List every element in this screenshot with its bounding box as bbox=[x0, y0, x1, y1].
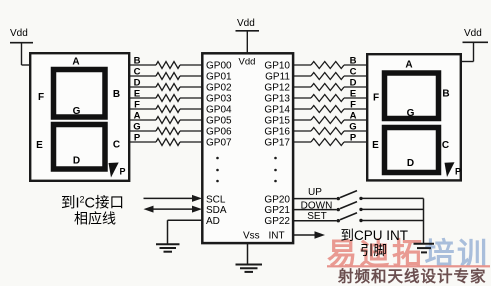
svg-text:A: A bbox=[134, 111, 141, 122]
node B left / wire bbox=[130, 64, 156, 66]
svg-text:G: G bbox=[73, 106, 81, 117]
resistor R16 bbox=[294, 139, 367, 146]
svg-text:P: P bbox=[350, 133, 357, 144]
segments E D C right bbox=[385, 128, 439, 173]
svg-text:B: B bbox=[113, 89, 120, 100]
svg-text:GP13: GP13 bbox=[264, 94, 290, 105]
svg-text:P: P bbox=[134, 133, 141, 144]
svg-text:D: D bbox=[350, 78, 357, 89]
wire Vss to ground bbox=[247, 244, 249, 265]
svg-text:A: A bbox=[350, 111, 357, 122]
svg-text:相应线: 相应线 bbox=[74, 211, 116, 227]
svg-text:Vdd: Vdd bbox=[237, 18, 255, 29]
power symbol Vdd (top center) bbox=[236, 18, 260, 53]
svg-text:GP01: GP01 bbox=[206, 72, 232, 83]
node A left / wire bbox=[130, 119, 156, 121]
svg-text:GP14: GP14 bbox=[264, 105, 290, 116]
wire Vdd to left display bbox=[22, 64, 31, 66]
power symbol Vdd (left) bbox=[10, 28, 33, 65]
svg-text:GP07: GP07 bbox=[206, 138, 232, 149]
svg-text:GP12: GP12 bbox=[264, 83, 290, 94]
display DS2 (right 7-segment) bbox=[367, 54, 461, 180]
svg-text:C: C bbox=[113, 140, 120, 151]
svg-text:B: B bbox=[442, 89, 449, 100]
svg-text:B: B bbox=[350, 56, 357, 67]
svg-text:Vss: Vss bbox=[243, 231, 260, 242]
decimal point P bbox=[109, 163, 119, 178]
ground (switch bus) bbox=[414, 244, 435, 253]
svg-text:GP15: GP15 bbox=[264, 116, 290, 127]
resistor R2 bbox=[156, 73, 202, 80]
label to CPU INT pin bbox=[341, 228, 409, 258]
svg-text:GP10: GP10 bbox=[264, 61, 290, 72]
svg-text:GP17: GP17 bbox=[264, 138, 290, 149]
svg-text:GP16: GP16 bbox=[264, 127, 290, 138]
resistor R10 bbox=[294, 73, 367, 80]
segments A F B G right bbox=[385, 73, 439, 119]
op-amp U1 IC body bbox=[202, 53, 293, 243]
node E left / wire bbox=[130, 97, 156, 99]
svg-text:C: C bbox=[134, 67, 141, 78]
resistor R8 bbox=[156, 139, 202, 146]
svg-text:SCL: SCL bbox=[206, 195, 226, 206]
ground (AD) bbox=[156, 244, 180, 251]
svg-text:A: A bbox=[405, 60, 412, 71]
svg-text:D: D bbox=[134, 78, 141, 89]
segments A F B G bbox=[54, 70, 106, 118]
svg-text:到CPU INT: 到CPU INT bbox=[341, 228, 409, 243]
switch S1 UP bbox=[294, 191, 424, 201]
resistor R13 bbox=[294, 106, 367, 113]
wire AD to ground bbox=[168, 220, 203, 244]
power symbol Vdd (right) bbox=[463, 28, 489, 62]
resistor R5 bbox=[156, 106, 202, 113]
ellipsis right bbox=[274, 157, 277, 183]
svg-text:F: F bbox=[350, 100, 356, 111]
svg-text:GP03: GP03 bbox=[206, 94, 232, 105]
svg-text:到I2C接口: 到I2C接口 bbox=[61, 195, 124, 212]
svg-text:Vdd: Vdd bbox=[239, 57, 256, 68]
svg-text:B: B bbox=[134, 56, 141, 67]
wire INT arrow bbox=[294, 231, 326, 238]
svg-text:GP11: GP11 bbox=[265, 72, 290, 83]
node F left / wire bbox=[130, 108, 156, 110]
node P left / wire bbox=[130, 141, 156, 143]
svg-text:D: D bbox=[407, 158, 414, 169]
svg-text:D: D bbox=[73, 156, 80, 167]
svg-text:GP04: GP04 bbox=[206, 105, 232, 116]
svg-text:P: P bbox=[455, 167, 461, 177]
svg-text:E: E bbox=[36, 140, 43, 151]
segments E D C bbox=[54, 125, 106, 170]
svg-text:射频和天线设计专家: 射频和天线设计专家 bbox=[337, 267, 487, 286]
svg-text:GP20: GP20 bbox=[264, 195, 290, 206]
svg-text:SDA: SDA bbox=[206, 205, 227, 216]
svg-text:C: C bbox=[442, 140, 449, 151]
svg-text:P: P bbox=[120, 167, 126, 177]
wire Vdd to right display bbox=[461, 61, 474, 63]
svg-text:UP: UP bbox=[308, 187, 322, 198]
svg-text:GP00: GP00 bbox=[206, 61, 232, 72]
resistor R11 bbox=[294, 84, 367, 91]
decimal point P right bbox=[445, 162, 455, 177]
svg-text:C: C bbox=[350, 67, 357, 78]
svg-text:F: F bbox=[38, 92, 44, 103]
svg-text:G: G bbox=[407, 108, 415, 119]
svg-text:G: G bbox=[349, 122, 356, 133]
svg-text:Vdd: Vdd bbox=[10, 28, 28, 39]
display DS1 (left 7-segment) bbox=[30, 53, 129, 181]
resistor R3 bbox=[156, 84, 202, 91]
resistor R15 bbox=[294, 128, 367, 135]
label I2C interface lines bbox=[61, 195, 124, 227]
svg-text:Vdd: Vdd bbox=[464, 28, 482, 39]
resistor R7 bbox=[156, 128, 202, 135]
svg-text:F: F bbox=[373, 93, 379, 104]
resistor R9 bbox=[294, 62, 367, 69]
wire SDA double arrow bbox=[144, 206, 203, 213]
wire switch bus bbox=[423, 198, 425, 243]
svg-text:GP22: GP22 bbox=[264, 216, 290, 227]
svg-text:AD: AD bbox=[206, 216, 220, 227]
resistor R14 bbox=[294, 117, 367, 124]
svg-text:E: E bbox=[134, 89, 140, 100]
resistor R12 bbox=[294, 95, 367, 102]
svg-text:E: E bbox=[350, 89, 356, 100]
switch S3 SET bbox=[294, 213, 424, 223]
svg-text:F: F bbox=[134, 100, 140, 111]
svg-text:GP21: GP21 bbox=[264, 205, 290, 216]
node C left / wire bbox=[130, 75, 156, 77]
switch S2 DOWN bbox=[294, 202, 424, 212]
svg-text:E: E bbox=[372, 140, 379, 151]
svg-text:G: G bbox=[133, 122, 140, 133]
svg-text:INT: INT bbox=[269, 231, 285, 242]
svg-text:A: A bbox=[72, 57, 79, 68]
watermark logo yiditapeixun bbox=[327, 237, 490, 271]
ellipsis left bbox=[216, 157, 219, 183]
svg-text:GP06: GP06 bbox=[206, 127, 232, 138]
wire SCL arrow bbox=[144, 195, 203, 202]
svg-text:GP05: GP05 bbox=[206, 116, 232, 127]
resistor R4 bbox=[156, 95, 202, 102]
resistor R6 bbox=[156, 117, 202, 124]
ground (Vss) bbox=[236, 265, 263, 272]
node G left / wire bbox=[130, 130, 156, 132]
svg-text:GP02: GP02 bbox=[206, 83, 232, 94]
resistor R1 bbox=[156, 62, 202, 69]
svg-text:引脚: 引脚 bbox=[360, 243, 387, 258]
node D left / wire bbox=[130, 86, 156, 88]
